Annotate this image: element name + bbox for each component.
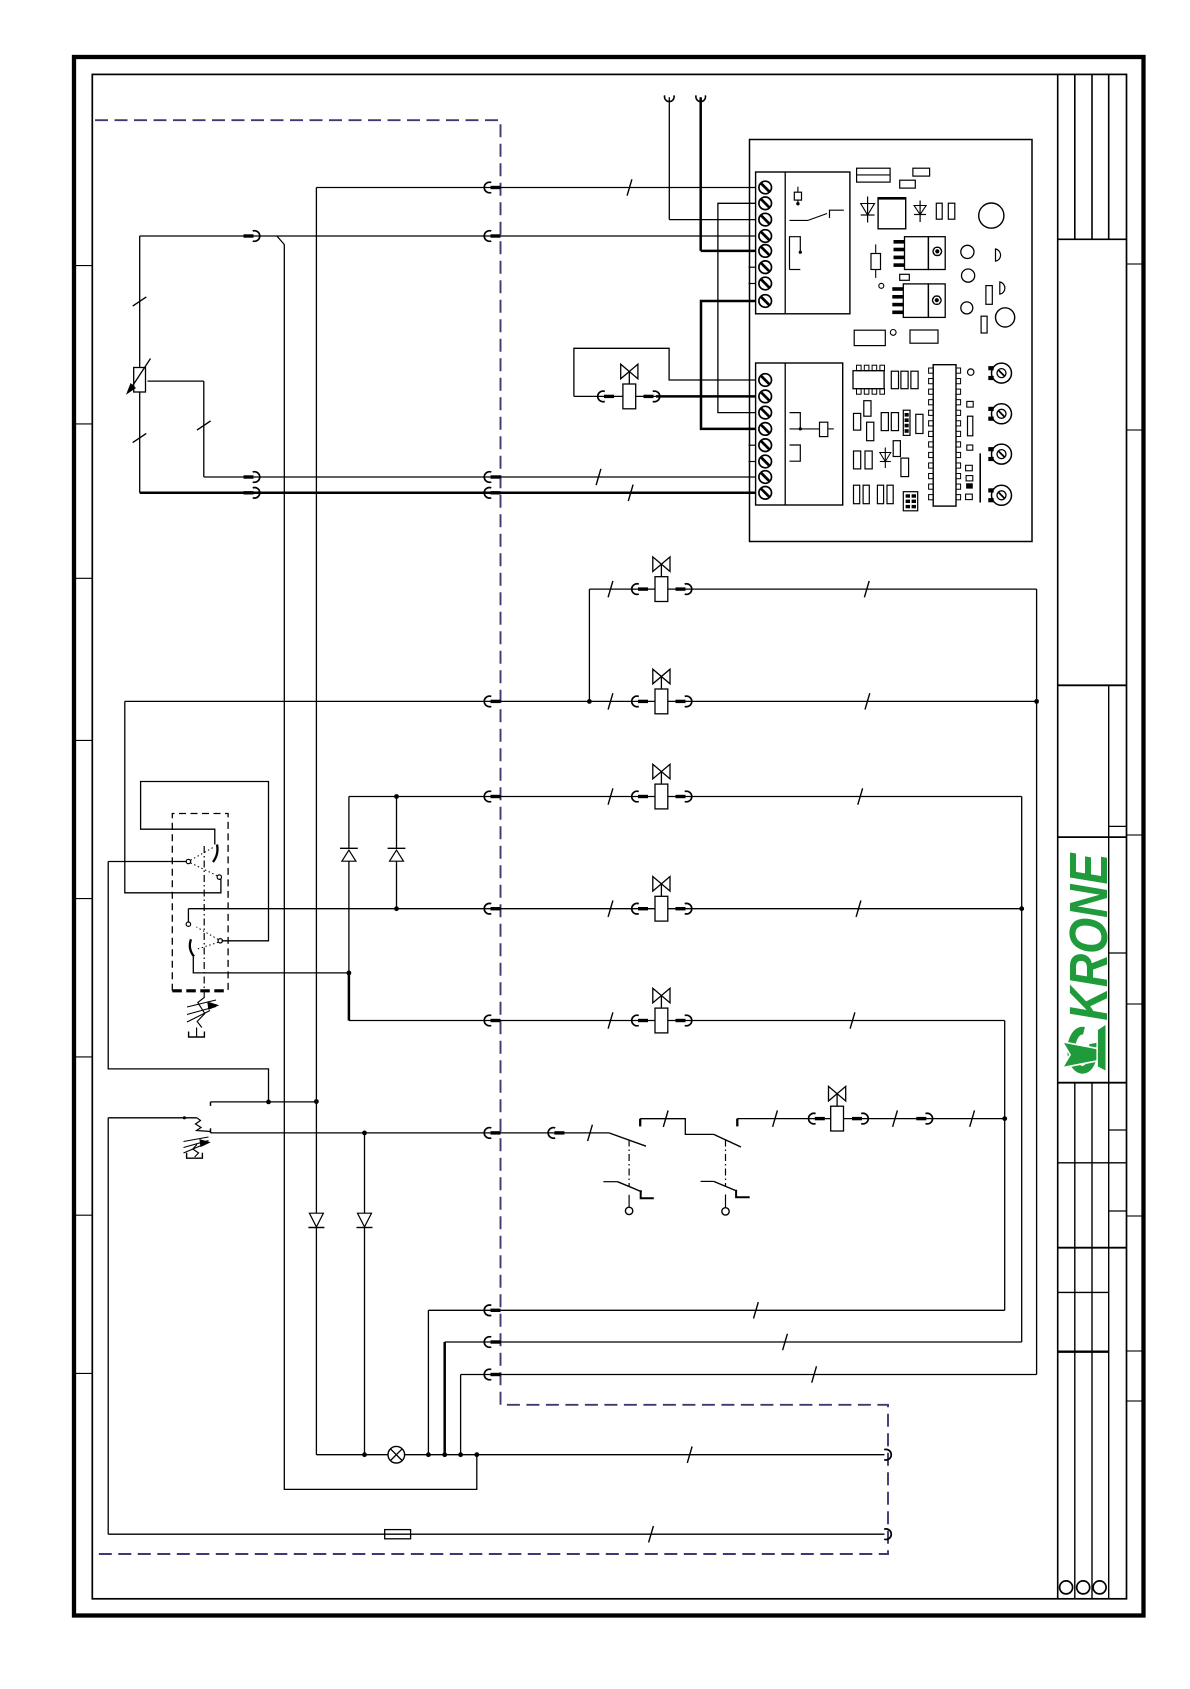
- pressure switch release symbol: [184, 1137, 209, 1153]
- connector contact: [916, 1117, 926, 1120]
- connector contact: [676, 907, 686, 910]
- connector socket: [884, 1449, 891, 1460]
- IC U1: [853, 371, 884, 389]
- pcb component resistors top: [857, 168, 891, 182]
- S4 blade: [714, 1134, 741, 1147]
- pcb caps pair: [936, 203, 942, 219]
- PCB control unit box: [750, 140, 1033, 542]
- junction: [183, 1116, 186, 1119]
- transistor Q2: [903, 284, 928, 318]
- valve row 6: [737, 1118, 1004, 1120]
- S1 dotted link rays: [191, 848, 213, 861]
- solenoid valve Y2: [653, 557, 670, 572]
- wire row D (bold): [140, 492, 756, 495]
- lamp wire row: [316, 1454, 884, 1456]
- S3-S4 link rail: [640, 1119, 714, 1135]
- lower diode D3: [309, 1213, 323, 1227]
- wire terminal: [696, 95, 706, 101]
- pcb bridge square: [878, 198, 906, 229]
- S3 lower contact: [603, 1181, 617, 1183]
- wire marker: [687, 1447, 692, 1463]
- connector contact: [676, 1019, 686, 1022]
- wire marker: [773, 1110, 778, 1126]
- X1 screw 8: [759, 295, 772, 308]
- row4 drop to S2 contact: [187, 909, 189, 922]
- wire marker: [197, 421, 211, 430]
- binder holes: [1060, 1581, 1073, 1594]
- connector contact: [484, 1337, 491, 1348]
- connector contact: [244, 491, 254, 494]
- solenoid valve Y5: [653, 877, 670, 892]
- switch S1 common feed wire: [108, 861, 186, 863]
- connector contact: [548, 1128, 555, 1139]
- junction: [799, 427, 802, 430]
- connector contact: [484, 472, 491, 483]
- X2 screw 6: [759, 455, 772, 468]
- wire marker: [628, 485, 633, 501]
- wire marker: [850, 1012, 855, 1028]
- X2 screw 1: [759, 374, 772, 387]
- pcb circles column: [961, 245, 974, 258]
- X1 screw 7: [759, 277, 772, 290]
- pressure switch upper rail: [211, 1101, 317, 1103]
- pressure switch lower rail: [211, 1132, 610, 1134]
- wire marker: [893, 1110, 898, 1126]
- pot tap wire: [148, 380, 204, 382]
- connector contact: [598, 391, 605, 402]
- KRONE emblem ring: [1071, 1031, 1093, 1070]
- connector contact: [632, 1015, 639, 1026]
- pcb big cap circle: [979, 203, 1004, 228]
- junction: [314, 1099, 319, 1104]
- junction: [442, 1452, 447, 1457]
- S1 moving blade arc: [213, 845, 217, 863]
- wire row C: [204, 476, 756, 478]
- wire marker: [858, 788, 863, 804]
- connector contact: [244, 475, 254, 478]
- connector contact: [484, 231, 491, 242]
- connector contact: [484, 182, 491, 193]
- wire marker: [608, 693, 613, 709]
- connector contact: [484, 1128, 491, 1139]
- pcb dip switch: [903, 410, 910, 435]
- X2 screw 7: [759, 471, 772, 484]
- valve V0 loop wire: [574, 348, 756, 396]
- solenoid valve Y4: [653, 764, 670, 779]
- wire row A: [316, 187, 755, 189]
- valve row 4: [188, 908, 1021, 910]
- right bus row3/4 down to row II: [1021, 797, 1023, 1343]
- wire marker: [783, 1334, 788, 1350]
- S3 output stub: [639, 1119, 641, 1127]
- S2 contact circle right: [218, 939, 222, 943]
- valve row 2: [125, 700, 1037, 702]
- wire marker: [608, 901, 613, 917]
- solenoid valve Y7: [829, 1086, 846, 1101]
- wire marker: [856, 901, 861, 917]
- valve row 3: [349, 796, 1022, 798]
- title block column: [1057, 74, 1059, 1598]
- wire marker: [133, 433, 147, 442]
- X2 screw 2: [759, 390, 772, 403]
- wire row III: [461, 1374, 1037, 1376]
- lamp H1: [388, 1446, 405, 1463]
- lower diode D4: [358, 1213, 372, 1227]
- dashed harness boundary: [95, 120, 888, 1554]
- link block1.8 - block2.4 (bold): [701, 301, 756, 429]
- valve row 5: [349, 1020, 1005, 1022]
- solenoid valve Y3: [653, 669, 670, 684]
- wire marker: [608, 581, 613, 597]
- KRONE underline bar: [1098, 1025, 1106, 1071]
- valve V0 row wire: [574, 395, 623, 397]
- S4 lower contact: [701, 1180, 714, 1182]
- connector contact: [484, 1369, 491, 1380]
- X1 screw 2: [759, 197, 772, 210]
- mechanical link dash-dot: [203, 846, 205, 991]
- connector contact: [632, 696, 639, 707]
- connector contact: [244, 234, 254, 237]
- pcb rc group: [891, 371, 898, 389]
- wire row B: [140, 235, 756, 237]
- X1 screw 3: [759, 213, 772, 226]
- wire marker: [663, 1111, 668, 1127]
- pcb resistor R10: [871, 254, 881, 270]
- relay K1 inside X1: [794, 192, 801, 200]
- connector contact: [484, 696, 491, 707]
- fold ticks left margin: [75, 265, 92, 267]
- junction: [347, 971, 352, 976]
- S2 dotted link rays: [197, 927, 219, 939]
- junction: [458, 1452, 463, 1457]
- wire marker: [588, 1125, 593, 1141]
- transistor Q1: [905, 237, 929, 270]
- IC U2: [933, 365, 956, 506]
- right bus row5 down to row I: [1004, 1021, 1006, 1311]
- wire marker: [865, 693, 870, 709]
- connector socket: [884, 1529, 891, 1540]
- inner drawing frame: [92, 74, 1126, 1598]
- junction: [796, 202, 799, 205]
- connector contact: [484, 487, 491, 498]
- pcb diode Z1: [867, 197, 869, 223]
- junction: [394, 906, 399, 911]
- X1 screw 6: [759, 261, 772, 274]
- wire marker: [608, 788, 613, 804]
- X1 spare stubs: [749, 266, 756, 268]
- left drop wire from S1 common: [108, 862, 268, 1102]
- supply wire 2 to PCB (bold): [699, 97, 702, 251]
- wire row I: [428, 1309, 1004, 1311]
- pcb mid rects: [854, 330, 885, 345]
- junction: [266, 1100, 271, 1105]
- S3 blade: [609, 1133, 646, 1146]
- title block small cell dividers: [1109, 825, 1127, 827]
- wire marker: [649, 1526, 654, 1542]
- connector contact: [484, 1305, 491, 1316]
- wire marker: [627, 179, 632, 195]
- wire row II: [445, 1341, 1022, 1343]
- connector contact: [676, 587, 686, 590]
- X2 screw 5: [759, 439, 772, 452]
- valve row 1: [589, 588, 1036, 590]
- connector contact: [676, 795, 686, 798]
- detent symbol below switch box: [187, 1000, 216, 1022]
- S4 output stub: [736, 1119, 738, 1127]
- S2 upper contact circle: [186, 922, 190, 926]
- junction: [474, 1452, 479, 1457]
- pcb half moons: [996, 249, 1001, 261]
- wire terminal: [665, 95, 675, 101]
- wire marker: [608, 1012, 613, 1028]
- X1 screw 5: [759, 245, 772, 258]
- diode D2 branch: [396, 797, 398, 849]
- potentiometer R1: [139, 236, 141, 368]
- pcb potentiometers: [992, 363, 1012, 383]
- pcb black grid connector: [903, 492, 917, 511]
- S4 mechanical link: [725, 1140, 727, 1188]
- junction: [362, 1131, 367, 1136]
- relay K2 inside X2: [790, 413, 801, 429]
- wire marker: [754, 1302, 759, 1318]
- X2 screw 3: [759, 406, 772, 419]
- S2 moving blade arc: [190, 939, 194, 956]
- pressure switch spring contact: [196, 1118, 211, 1132]
- svg-text:KRONE: KRONE: [1059, 852, 1119, 1021]
- pcb small rect: [900, 274, 910, 280]
- terminal block X2: [756, 363, 843, 505]
- X2 screw 4: [759, 423, 772, 436]
- solenoid valve Y1: [621, 364, 638, 379]
- KRONE wordmark: [1059, 852, 1119, 1021]
- S1 output to row2: [125, 701, 221, 892]
- junction: [394, 794, 399, 799]
- S1 contact circle: [217, 875, 221, 879]
- wire marker: [812, 1366, 817, 1382]
- wire marker: [596, 469, 601, 485]
- fold ticks right margin: [1127, 263, 1143, 265]
- connector contact: [484, 903, 491, 914]
- connector contact: [484, 791, 491, 802]
- supply wire 1 to PCB: [668, 97, 670, 219]
- vertical wire x284: [284, 245, 477, 1490]
- S1 fixed contact feed loop: [141, 782, 269, 941]
- terminal block X1: [756, 172, 850, 314]
- connector contact: [852, 1117, 862, 1120]
- vertical wire x316: [315, 188, 317, 1213]
- X2 screw 8: [759, 487, 772, 500]
- junction: [799, 251, 802, 254]
- wire marker: [864, 581, 869, 597]
- link block1.2 - block2.3: [718, 203, 756, 412]
- connector contact: [632, 584, 639, 595]
- junction: [362, 1452, 367, 1457]
- connector contact: [632, 903, 639, 914]
- relay K1 coil: [790, 237, 801, 270]
- diode D1 branch: [348, 797, 350, 849]
- dashed switch box: [172, 814, 228, 991]
- right bus row1/2 down to row III: [1036, 589, 1038, 1374]
- solenoid valve Y6: [653, 988, 670, 1003]
- connector contact: [632, 791, 639, 802]
- S2 blade output wire: [193, 957, 349, 973]
- X2 spare stubs: [749, 444, 756, 446]
- connector contact: [809, 1113, 816, 1124]
- junction: [587, 699, 592, 704]
- junction: [1019, 906, 1024, 911]
- connector contact: [484, 1015, 491, 1026]
- branch kink row B: [277, 236, 284, 245]
- connector contact: [676, 700, 686, 703]
- fuse F1: [385, 1530, 411, 1539]
- relay K2 coil bracket: [790, 445, 801, 461]
- pcb diode Z2: [919, 201, 921, 223]
- wire marker: [133, 297, 147, 306]
- junction: [1002, 1116, 1007, 1121]
- junction: [426, 1452, 431, 1457]
- pcb diode Z3: [884, 448, 886, 469]
- connector contact: [644, 395, 654, 398]
- S3 mechanical link: [628, 1140, 630, 1188]
- X1 screw 4: [759, 230, 772, 243]
- junction: [1034, 699, 1039, 704]
- wire marker: [970, 1110, 975, 1126]
- pcb small rects right: [986, 286, 992, 305]
- fuse wire row: [108, 1533, 884, 1535]
- KRONE emblem crown band: [1064, 1043, 1097, 1067]
- pressure switch feed: [108, 1117, 197, 1119]
- X1 screw 1: [759, 181, 772, 194]
